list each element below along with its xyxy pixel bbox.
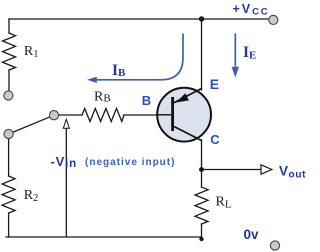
- svg-text:E: E: [210, 76, 219, 92]
- svg-text:C: C: [210, 132, 220, 147]
- svg-text:0v: 0v: [244, 227, 260, 242]
- svg-text:(negative input): (negative input): [85, 157, 175, 168]
- svg-text:B: B: [142, 93, 151, 108]
- svg-text:RB: RB: [94, 90, 111, 105]
